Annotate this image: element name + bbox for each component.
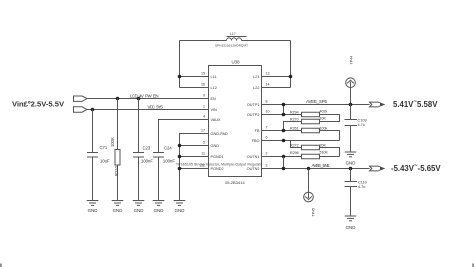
svg-text:402k: 402k [320,110,328,114]
output arrow AVDD [370,102,386,107]
svg-text:C24: C24 [164,146,172,151]
svg-text:8: 8 [266,99,268,103]
ground under R310 [112,201,124,213]
wire AVDD output (OUTP1) [262,104,370,106]
svg-text:Vin£º2.5V-5.5V: Vin£º2.5V-5.5V [12,100,65,109]
node junction EN/R310 [116,97,120,101]
input port connector P2 (VIN) [74,107,88,112]
svg-text:VAUX: VAUX [211,118,222,122]
ground under GND bus [174,201,186,213]
svg-text:SPH2520512HDRQMT: SPH2520512HDRQMT [215,44,248,48]
IC U38 TPS65105 [176,60,270,186]
wire TP45 stem [308,169,310,193]
svg-text:TP44: TP44 [350,56,354,65]
resistor R296 510K [290,151,328,159]
svg-text:VCC_SYS: VCC_SYS [148,104,164,109]
node L2 loop / L21 [289,75,293,79]
wire row5 right [320,156,340,158]
svg-text:AVEE_5N5: AVEE_5N5 [312,163,331,168]
svg-text:VIN: VIN [211,108,218,112]
svg-text:10K: 10K [320,117,327,121]
svg-text:15: 15 [201,71,205,75]
resistor R261 100k [290,126,327,132]
svg-text:100nF: 100nF [163,159,175,164]
inductor L17 SPH2520512HDRQMT [215,32,248,48]
svg-text:GND-PAD: GND-PAD [211,132,228,136]
svg-text:100nF: 100nF [141,159,153,164]
svg-text:L21: L21 [253,75,259,79]
test point TP45 [304,192,316,216]
wire net VCC_SYS [87,109,209,111]
svg-text:GND: GND [175,208,185,213]
svg-text:7: 7 [266,125,268,129]
capacitor C110 [345,181,367,189]
svg-text:R261: R261 [290,126,299,130]
resistor R272 20K [290,143,326,149]
svg-text:2: 2 [266,151,268,155]
svg-text:GND: GND [134,208,144,213]
svg-text:4.7u: 4.7u [358,123,365,127]
wire TP44 stem [350,88,352,105]
svg-text:OUTN1: OUTN1 [247,155,260,159]
node bus/OUTN1 [282,155,286,159]
wire C71 stem [92,110,94,201]
resistor R310 100K [110,137,120,176]
svg-text:FBO: FBO [252,139,260,143]
svg-text:6: 6 [266,135,268,139]
svg-text:GND: GND [113,208,123,213]
wire GND bus [180,134,209,201]
node bus/OUTP2 [282,113,286,117]
node AVDD/TP44/C109 [349,103,353,107]
svg-text:C71: C71 [100,145,108,150]
node GND bus / GND pin [178,144,182,148]
svg-text:5.41V~5.58V: 5.41V~5.58V [393,99,438,109]
ground under C109 [345,152,357,166]
svg-text:4: 4 [203,114,205,118]
node AVEE/C110 [349,167,353,171]
node junction EN/C23 [137,97,141,101]
output arrow AVEE [370,166,386,171]
svg-text:AVEE_SP5: AVEE_SP5 [306,99,328,104]
svg-text:5: 5 [203,140,205,144]
capacitor C71 [87,145,110,164]
svg-text:510K: 510K [320,151,329,155]
svg-text:13: 13 [266,71,270,75]
svg-text:3: 3 [266,163,268,167]
svg-text:14: 14 [266,82,270,86]
svg-text:11: 11 [201,151,205,155]
node GND bus / PGND1 [178,155,182,159]
svg-text:9: 9 [203,93,205,97]
ground under C71 [87,201,99,213]
wire VAUX [159,120,209,153]
svg-text:FB: FB [255,129,260,133]
ground under C23 [133,201,145,213]
wire C110 stems [350,169,352,217]
svg-text:17: 17 [201,128,205,132]
svg-text:-5.43V~-5.65V: -5.43V~-5.65V [391,163,441,173]
input port connector P1 (EN) [74,96,88,101]
svg-text:10uF: 10uF [100,159,110,164]
svg-text:OUTP2: OUTP2 [247,113,260,117]
wire FB/row3 [262,130,302,132]
node bus/AVEE [282,167,286,171]
svg-text:GND: GND [346,161,356,166]
capacitor C24 [153,146,175,164]
svg-text:OUTP1: OUTP1 [247,103,260,107]
wire net LCD_4V_PW_EN [87,98,209,100]
wire bus seg OUTN1-AVEE [283,157,285,169]
svg-text:R272: R272 [290,143,299,147]
svg-text:PGND2: PGND2 [211,167,224,171]
svg-text:16: 16 [201,82,205,86]
wire row1 right [320,115,340,122]
svg-text:05-2B3414: 05-2B3414 [225,180,245,185]
wire inductor top [180,40,291,42]
wire OUTN1/row5 [262,156,302,158]
svg-text:R294: R294 [290,110,299,114]
frame corner mark bottom-left [0,264,2,267]
wire bus seg OUTP1-OUTP2 [283,105,285,115]
frame corner mark bottom-right [472,264,474,267]
svg-text:1: 1 [203,104,205,108]
svg-text:EN: EN [211,97,217,101]
svg-text:U38: U38 [232,60,241,65]
svg-text:R270: R270 [290,117,299,121]
wire R310 stem [117,99,119,201]
svg-text:4.7u: 4.7u [358,185,365,189]
svg-text:TP45: TP45 [312,208,316,217]
node bus/FBO [282,139,286,143]
node bus/OUTP1 [282,103,286,107]
wire C23 stem [138,99,140,201]
node junction VCC_SYS/C71 [91,108,95,112]
svg-text:L11: L11 [211,75,217,79]
svg-text:TPS65105 Single-Inductor, Mult: TPS65105 Single-Inductor, Multiple-Outpu… [176,163,262,167]
wire L2 loop right [262,41,291,88]
svg-text:R296: R296 [290,151,299,155]
wire row2 left to FB [284,122,302,131]
wire OUTP2/row1 [262,114,302,116]
wire C24 stem [158,157,160,201]
svg-text:10: 10 [266,109,270,113]
svg-text:GND: GND [154,208,164,213]
wire row4 feeder [291,141,302,148]
node bus/FB [282,129,286,133]
svg-text:100K: 100K [110,137,115,147]
svg-text:C23: C23 [143,146,151,151]
capacitor C109 [345,119,367,127]
wire FBO [262,140,340,142]
svg-text:L22: L22 [253,86,259,90]
wire row4 right [320,148,340,157]
test point TP44 [346,56,356,88]
svg-text:GND: GND [88,208,98,213]
resistor R294 402k [290,110,327,117]
node L1 loop / L11 [178,75,182,79]
svg-text:GND: GND [346,225,356,230]
svg-text:PGND1: PGND1 [211,155,224,159]
svg-text:L12: L12 [211,86,217,90]
wire C109 stems [350,105,352,153]
wire row3 right to FBO [320,131,340,141]
capacitor C23 [133,146,153,164]
ground under C110 [345,216,357,230]
svg-text:OUTN2: OUTN2 [247,167,260,171]
svg-text:100k: 100k [320,126,328,130]
wire AVEE output (OUTN2) [262,168,370,170]
wire L1 loop left [180,41,209,88]
node GND bus / PGND2 [178,167,182,171]
ground under C24 [153,201,165,213]
svg-text:GND: GND [211,144,220,148]
node AVEE/TP45 [307,167,311,171]
resistor R270 10K [290,117,326,124]
svg-text:LCD_4V_PW_EN: LCD_4V_PW_EN [130,93,159,98]
svg-text:L17: L17 [230,32,236,36]
svg-text:R310: R310 [114,165,119,176]
